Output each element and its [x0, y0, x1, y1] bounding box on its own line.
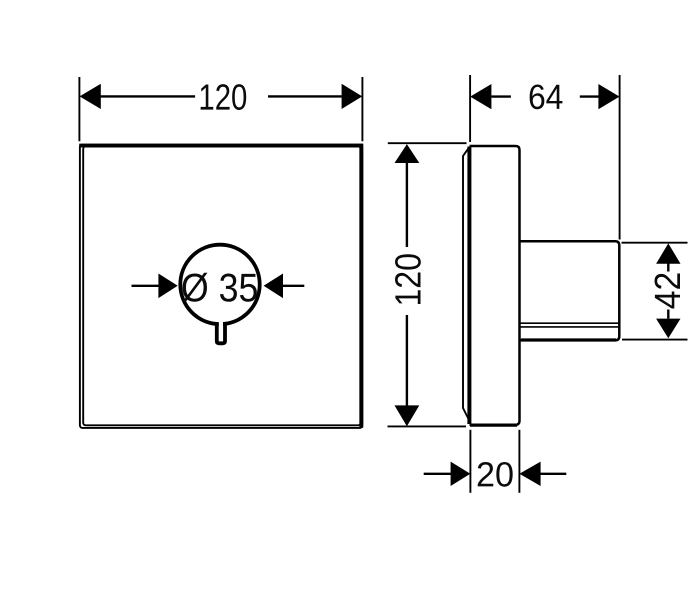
dim120side bottom arrow	[395, 405, 420, 426]
front plate right thick edge	[359, 144, 363, 428]
valve box step line upper	[521, 322, 619, 324]
dim120top line right segment	[268, 95, 342, 97]
dim120top left extension line	[78, 77, 80, 141]
dim42 bottom extension line	[622, 339, 688, 341]
svg-text:120: 120	[388, 253, 429, 307]
dim64 line left segment	[491, 95, 511, 97]
side plate bottom thick edge	[470, 424, 517, 427]
side plate back edge with chamfers	[463, 148, 469, 421]
dim120top line left segment	[101, 95, 196, 97]
front plate inner face outline	[83, 146, 360, 425]
handle notch tab	[217, 322, 225, 343]
dim20 right extension line	[518, 430, 520, 493]
svg-text:20: 20	[476, 455, 514, 494]
svg-text:120: 120	[198, 77, 247, 118]
front plate top thick edge	[79, 144, 363, 148]
dim20 left extension line	[469, 430, 471, 493]
svg-text:64: 64	[528, 78, 564, 117]
dim120side line lower segment	[406, 315, 408, 406]
dim120side line upper segment	[406, 163, 408, 248]
valve box outline	[520, 241, 619, 340]
dim120side top arrow	[395, 144, 420, 163]
dim42 bottom arrow	[656, 319, 680, 339]
dim42 top arrow	[656, 243, 680, 263]
dim42 line upper segment	[667, 264, 669, 272]
dim120side top extension line	[388, 142, 467, 144]
dim64 right arrow	[598, 84, 619, 109]
svg-text:42: 42	[647, 272, 688, 310]
handle circle	[180, 245, 259, 324]
dim20 left leader line	[424, 473, 451, 475]
dim64 line right segment	[580, 95, 599, 97]
valve box bottom thick edge	[521, 338, 616, 341]
dim64 left extension line	[469, 75, 471, 142]
svg-text:Ø 35: Ø 35	[181, 266, 259, 310]
front plate outer outline	[80, 145, 362, 428]
dim20 right arrow	[519, 462, 540, 486]
dim20 left arrow	[451, 462, 471, 486]
side plate front face thick line	[467, 147, 471, 425]
dim20 right leader line	[541, 473, 567, 475]
dia35 right leader line	[283, 285, 304, 287]
dim120top left arrow	[80, 84, 101, 109]
dia35 left leader line	[132, 285, 159, 287]
dim64 right extension line	[619, 75, 621, 240]
valve box step line lower	[521, 326, 619, 328]
dim42 line lower segment	[667, 310, 669, 319]
dim42 top extension line	[622, 242, 688, 244]
circle gap erase	[219, 316, 223, 330]
dim120top right arrow	[342, 84, 363, 109]
dia35 left arrow	[158, 274, 177, 299]
dim120side bottom extension line	[388, 425, 467, 427]
side plate outline	[470, 146, 520, 425]
dia35 right arrow	[264, 274, 283, 299]
dim120top right extension line	[361, 77, 363, 141]
dim64 left arrow	[470, 84, 491, 109]
